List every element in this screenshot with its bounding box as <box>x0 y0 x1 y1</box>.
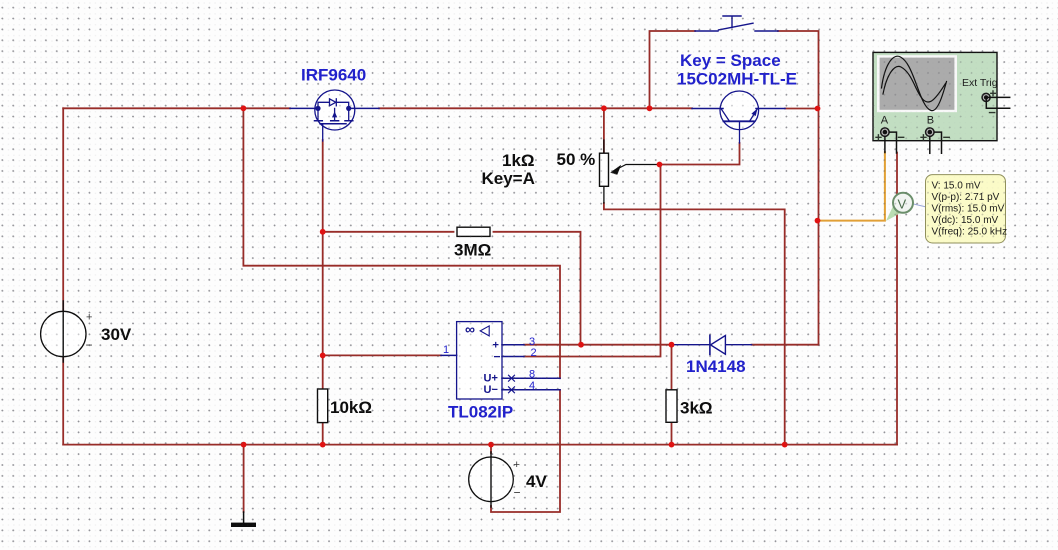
resistor R3 3MOhm <box>457 227 490 236</box>
junction node pin3/3M <box>578 342 584 348</box>
junction node 3k bottom <box>669 442 675 448</box>
junction node probe <box>815 218 821 224</box>
wire 4V internal <box>490 452 492 507</box>
svg-text:10kΩ: 10kΩ <box>330 398 372 417</box>
wire main top rail <box>63 107 290 109</box>
svg-text:U+: U+ <box>484 373 498 385</box>
wire 30V to bottom rail <box>62 358 64 445</box>
junction node pot drop <box>782 442 788 448</box>
svg-text:15C02MH-TL-E: 15C02MH-TL-E <box>677 70 797 89</box>
svg-text:Key = Space: Key = Space <box>680 51 781 70</box>
wire U+ supply: rail down x=243.4 then right y=265.7 then down x=560 <box>243 108 560 378</box>
svg-text:U−: U− <box>484 384 498 396</box>
wire diode right to right riser <box>752 344 819 346</box>
junction node 4V top <box>488 442 494 448</box>
potentiometer R2 1kOhm Key=A 50% <box>600 140 660 203</box>
svg-text:V(rms): 15.0 mV: V(rms): 15.0 mV <box>932 204 1005 215</box>
svg-text:3kΩ: 3kΩ <box>680 399 713 418</box>
svg-text:A: A <box>881 115 889 127</box>
junction node wiper <box>657 162 663 168</box>
wire pot top lead <box>603 108 605 152</box>
wire left drop to 30V <box>62 108 64 310</box>
junction node diode/3k <box>669 342 675 348</box>
svg-text:V: V <box>898 197 907 212</box>
svg-text:B: B <box>927 115 934 127</box>
resistor R1 10kOhm <box>318 389 328 423</box>
svg-text:1: 1 <box>443 344 449 356</box>
transistor Q2 15C02MH-TL-E <box>692 91 785 143</box>
wire 4V bottom loop to op-amp pin4 <box>491 390 560 512</box>
junction node 10k bottom <box>320 442 326 448</box>
oscilloscope XSC1 <box>873 52 1010 153</box>
wire 30V internal <box>62 301 64 362</box>
wire transistor collector to right riser <box>785 108 819 110</box>
svg-text:1N4148: 1N4148 <box>686 357 746 376</box>
wire pot bottom then right then down to bottom rail <box>604 203 785 445</box>
svg-text:30V: 30V <box>101 325 132 344</box>
wire rail MOSFET right to pot top and switch left <box>379 107 692 109</box>
wire switch left riser <box>650 31 696 108</box>
probe callout readings <box>926 175 1008 243</box>
switch Key = Space <box>695 16 778 31</box>
wire 10k bottom lead <box>322 423 324 445</box>
wire scope right drop <box>896 153 898 445</box>
probe voltmeter V <box>886 193 927 221</box>
svg-text:−: − <box>86 338 93 352</box>
wire ground drop <box>243 445 245 512</box>
svg-text:1kΩ: 1kΩ <box>502 151 535 170</box>
junction node collector <box>815 106 821 112</box>
wire op-amp pin1 <box>323 354 441 356</box>
wire 3M left <box>323 231 454 233</box>
svg-text:50 %: 50 % <box>557 150 596 169</box>
junction node gate/3M <box>320 229 326 235</box>
MOSFET Q1 IRF9640 <box>290 90 379 141</box>
wire op-amp pin3 to diode node <box>524 344 672 346</box>
svg-text:V(dc): 15.0 mV: V(dc): 15.0 mV <box>932 215 999 226</box>
diode D1 1N4148 <box>672 335 752 354</box>
svg-text:V(freq): 25.0 kHz: V(freq): 25.0 kHz <box>932 227 1008 238</box>
wire 3k bottom lead <box>671 422 673 444</box>
svg-text:4V: 4V <box>526 472 547 491</box>
op-amp U1 TL082IP <box>441 322 560 399</box>
svg-text:V(p-p): 2.71 pV: V(p-p): 2.71 pV <box>932 192 1000 203</box>
svg-text:V: 15.0 mV: V: 15.0 mV <box>932 180 981 191</box>
wire 3k top lead from diode node <box>671 345 673 390</box>
svg-text:+: + <box>514 459 520 471</box>
voltage source V1 30V <box>41 311 86 356</box>
svg-text:+: + <box>86 312 92 324</box>
wire 3M right then down to pin3 node <box>494 232 581 345</box>
resistor R4 3kOhm <box>666 390 677 423</box>
junction node rail/U+ <box>241 105 247 111</box>
junction node pin1 <box>320 353 326 359</box>
wire emitter down then left to wiper node <box>660 143 740 165</box>
junction node pot top <box>601 105 607 111</box>
svg-text:Ext Trig: Ext Trig <box>962 77 998 89</box>
svg-text:−: − <box>494 350 501 364</box>
svg-text:4: 4 <box>529 380 535 392</box>
svg-text:∞: ∞ <box>465 321 475 337</box>
svg-text:8: 8 <box>529 369 535 381</box>
ground <box>231 512 256 527</box>
wire 4V top lead <box>490 445 492 453</box>
svg-text:3MΩ: 3MΩ <box>454 241 491 260</box>
svg-text:2: 2 <box>531 347 537 359</box>
svg-text:IRF9640: IRF9640 <box>301 66 366 85</box>
junction node ground <box>241 442 247 448</box>
svg-text:Key=A: Key=A <box>482 169 535 188</box>
wire op-amp pin2 right then up to wiper node <box>524 165 661 357</box>
wire switch right riser <box>778 31 819 345</box>
svg-text:−: − <box>514 486 521 500</box>
wire gate chain down x=322.7 <box>322 140 324 389</box>
wire bottom rail <box>63 444 897 446</box>
wire orange probe wire to scope A <box>818 152 885 221</box>
junction node switch left <box>647 105 653 111</box>
voltage source V2 4V <box>469 457 514 502</box>
svg-text:TL082IP: TL082IP <box>448 403 513 422</box>
